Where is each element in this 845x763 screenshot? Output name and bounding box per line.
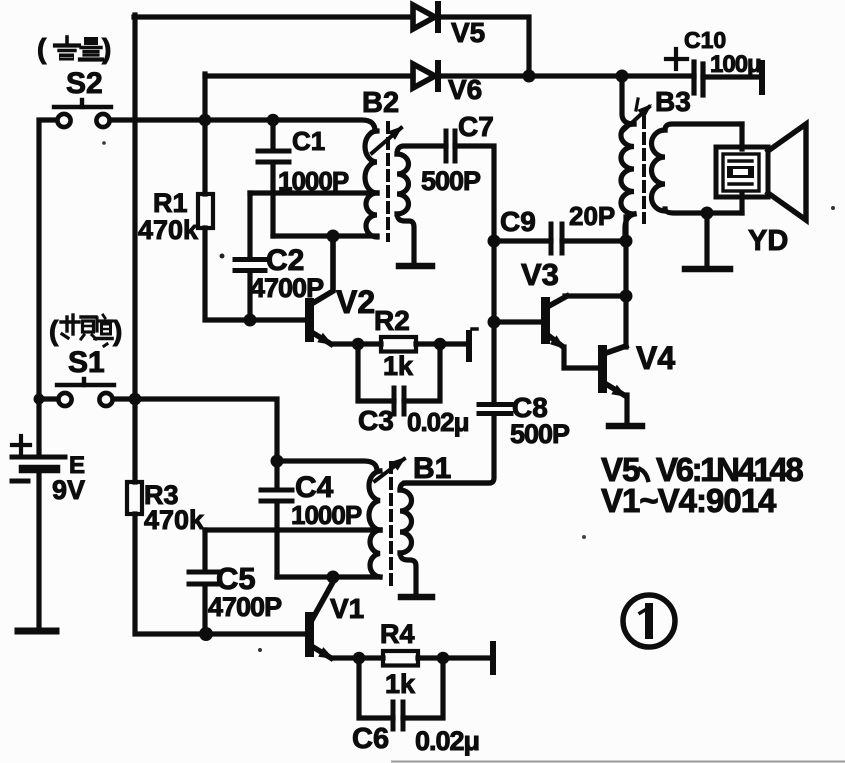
wire V1 emitter line [334, 655, 383, 660]
svg-text:9V: 9V [52, 475, 85, 505]
capacitor C2 [235, 193, 265, 320]
transformer B1 primary winding [369, 471, 380, 577]
node C4 top junction [271, 455, 284, 468]
wire left rail x135 upper [132, 15, 137, 482]
label R2 value 1k [383, 351, 414, 381]
label S2 [66, 67, 103, 100]
scan bottom edge line [392, 761, 845, 763]
switch S1 right contact [99, 393, 112, 406]
label C5 value 4700P [208, 592, 282, 622]
label C2 [266, 244, 304, 277]
wire B1 tap line [205, 527, 380, 532]
label 9V [52, 475, 85, 505]
battery E positive plate [12, 455, 65, 460]
transformer B3 tuning arrow [624, 99, 652, 130]
label C8 [512, 392, 548, 423]
transistor V1 collector [313, 577, 333, 618]
transistor V1 emitter [313, 647, 334, 659]
label B3 [655, 86, 691, 117]
node C3 right junction [434, 338, 447, 351]
wire battery to S1 left [39, 396, 58, 401]
node S1 left junction [34, 394, 45, 405]
svg-text:): ) [113, 315, 122, 346]
capacitor C5 [189, 530, 220, 634]
svg-text:C3: C3 [358, 405, 394, 436]
label V3 [521, 257, 559, 292]
transistor V4 emitter [606, 384, 627, 397]
label C7 [458, 111, 494, 142]
wire C10 to terminal [703, 74, 759, 79]
transformer B3 secondary winding [652, 124, 743, 213]
wire V4/V3 collector column [623, 217, 628, 347]
label R1 [153, 188, 188, 218]
label C1 value 1000P [278, 166, 349, 196]
node C1 top junction [267, 114, 280, 127]
note diodes types [601, 451, 803, 488]
transformer B2 tuning arrow [372, 126, 403, 153]
label C3 [358, 405, 394, 436]
speaker YD driver box [716, 147, 768, 197]
battery E negative plate [23, 465, 56, 474]
svg-text:R2: R2 [374, 305, 410, 336]
resistor R1 [198, 194, 213, 228]
capacitor C9 [494, 224, 626, 253]
wire supply rail y76 left segment [205, 73, 413, 78]
switch S2 bar [54, 100, 111, 107]
node V1 collector junction [327, 571, 340, 584]
label C4 value 1000P [291, 500, 362, 530]
resistor R3 [127, 482, 142, 514]
svg-text:B3: B3 [655, 86, 691, 117]
label C6 value 0.02u [415, 726, 479, 756]
svg-text:B2: B2 [362, 87, 399, 119]
label C10 [684, 27, 726, 53]
svg-text:C6: C6 [352, 723, 389, 755]
node C6 left junction [353, 652, 366, 665]
transistor V3 collector [549, 296, 626, 306]
wire S2 left to battery rail [39, 120, 57, 456]
label C3 value 0.02u [407, 407, 469, 437]
label C2 value 4700P [250, 273, 324, 303]
node R1 top junction [199, 114, 212, 127]
wire supply rail y76 middle segment [437, 73, 694, 78]
wire C7 to C8 column [455, 146, 494, 403]
wire top rail to V5 [134, 14, 413, 19]
speaker YD horn [768, 124, 806, 220]
wire rail corner to R1 [202, 74, 207, 194]
label V5 [451, 17, 485, 48]
label volume kanji liang [80, 37, 102, 60]
capacitor C7 [446, 131, 455, 161]
wire V3 emitter to V4 base [564, 347, 599, 368]
terminal bar right of R2 [469, 329, 477, 359]
resistor R4 [383, 651, 418, 666]
node V3 base junction [488, 316, 501, 329]
transformer B1 secondary winding [400, 483, 489, 593]
node C6 right junction [437, 652, 450, 665]
svg-text:0.02μ: 0.02μ [415, 726, 479, 756]
transformer B2 core [386, 123, 390, 240]
wire speaker loop right side [739, 124, 744, 213]
label C1 [292, 126, 325, 156]
ground below B1 secondary [401, 594, 432, 601]
transistor V3 base bar [541, 297, 550, 344]
label V2 [336, 284, 375, 320]
svg-text:4700P: 4700P [208, 592, 282, 622]
label E [69, 452, 85, 479]
wire V5 to corner [437, 17, 529, 70]
label C9 [500, 206, 536, 237]
diode V6 [413, 63, 438, 89]
wire S1 to B1 feed [113, 399, 277, 461]
svg-text:(: ( [49, 315, 59, 346]
transistor V1 base bar [305, 612, 314, 657]
svg-text:S2: S2 [66, 67, 103, 100]
terminal bar right of C10 [759, 63, 765, 92]
label volume key parens [37, 33, 111, 64]
svg-text:470k: 470k [138, 215, 199, 245]
wire S2 to B2 primary top [110, 120, 375, 131]
label B1 [413, 452, 451, 485]
svg-text:V3: V3 [521, 257, 559, 292]
wire V4 emitter to ground [624, 395, 629, 423]
label R3 value 470k [144, 505, 205, 535]
label channel key parens [49, 315, 122, 346]
wire R2 to terminal [416, 341, 466, 346]
capacitor C3 loop [358, 344, 440, 414]
label channel kanji pin [61, 315, 96, 339]
wire V2 emitter line [332, 341, 381, 346]
node speaker ground junction [701, 207, 714, 220]
svg-text:C10: C10 [684, 27, 726, 53]
battery end bar [18, 628, 56, 635]
transformer B3 core [642, 118, 646, 222]
switch S2 right contact [96, 114, 109, 127]
wire B2 tap line [250, 190, 377, 195]
label R4 value 1k [385, 669, 416, 699]
wire B1 primary top line [277, 461, 377, 471]
diode V5 [413, 4, 438, 30]
transformer B2 secondary winding [397, 146, 446, 262]
label V1 [330, 593, 364, 624]
svg-text:V4: V4 [636, 340, 675, 376]
capacitor C1 [258, 120, 289, 236]
wire B2 primary bottom line [273, 233, 377, 238]
svg-text:YD: YD [748, 225, 788, 257]
label channel kanji dao [95, 315, 112, 339]
capacitor C8 [405, 405, 511, 484]
svg-text:R4: R4 [380, 619, 415, 649]
transformer B2 primary winding [365, 131, 377, 237]
capacitor C10 [666, 49, 703, 95]
terminal bar right of R4 [490, 644, 496, 672]
label C5 [216, 561, 256, 596]
label YD [748, 225, 788, 257]
label B2 [362, 87, 399, 119]
resistor R2 [381, 337, 416, 352]
node S1 right junction [129, 393, 142, 406]
svg-text:1k: 1k [385, 669, 416, 699]
node C5 bottom junction [199, 627, 213, 641]
label C10 value 100u [710, 51, 761, 78]
label C7 value 500P [421, 166, 481, 196]
svg-text:C7: C7 [458, 111, 494, 142]
transformer B3 primary winding [621, 76, 634, 241]
svg-text:B1: B1 [413, 452, 451, 485]
svg-text:100μ: 100μ [710, 51, 761, 78]
svg-text:1k: 1k [383, 351, 414, 381]
transistor V4 base bar [598, 345, 607, 393]
figure number circle 1 [623, 595, 675, 647]
node B3 top junction [616, 70, 629, 83]
transformer B1 core [389, 463, 393, 584]
scan specks [102, 141, 835, 652]
transistor V2 emitter [313, 333, 333, 345]
wire battery negative lead [36, 469, 41, 631]
ground below B2 secondary [399, 263, 432, 270]
ground below V4 [609, 423, 642, 430]
node C2 bottom junction [244, 314, 257, 327]
battery minus sign [12, 479, 28, 484]
label S1 [68, 344, 107, 379]
svg-text:20P: 20P [569, 201, 615, 231]
svg-text:V2: V2 [336, 284, 375, 320]
label R4 [380, 619, 415, 649]
label volume kanji yin [55, 37, 79, 61]
switch S1 bar [57, 379, 114, 385]
wire R4 to terminal [418, 655, 490, 660]
transistor V2 collector [313, 236, 333, 303]
wire left rail x135 lower and bottom run to V1 base [135, 514, 306, 634]
svg-text:R1: R1 [153, 188, 188, 218]
svg-text:0.02μ: 0.02μ [407, 407, 469, 437]
svg-text:S1: S1 [68, 346, 105, 379]
transformer B1 tuning arrow [375, 457, 406, 481]
svg-text:V5: V5 [451, 17, 485, 48]
svg-text:V1: V1 [330, 593, 364, 624]
label V6 [448, 74, 482, 105]
node C3 left junction [352, 338, 365, 351]
svg-text:C5: C5 [216, 561, 256, 596]
svg-text:C1: C1 [292, 126, 325, 156]
svg-text:V1~V4:9014: V1~V4:9014 [601, 482, 777, 519]
label C6 [352, 723, 389, 755]
label R1 value 470k [138, 215, 199, 245]
label R3 [144, 480, 179, 510]
label C4 [295, 471, 334, 504]
node A junction V5/V6 rails [523, 70, 536, 83]
note transistor types [601, 482, 777, 519]
label R2 [374, 305, 410, 336]
label C9 value 20P [569, 201, 615, 231]
svg-text:C9: C9 [500, 206, 536, 237]
transistor V2 base bar [305, 298, 314, 342]
node C9 right junction [620, 235, 633, 248]
svg-text:500P: 500P [510, 419, 570, 449]
capacitor C4 [261, 461, 292, 577]
svg-text:V6: V6 [448, 74, 482, 105]
battery plus sign [12, 436, 30, 454]
node V2 collector junction [327, 230, 340, 243]
switch S1 left contact [58, 393, 71, 406]
switch S2 left contact [57, 114, 70, 127]
svg-text:500P: 500P [421, 166, 481, 196]
transistor V4 collector [606, 346, 626, 353]
svg-text:(: ( [37, 33, 47, 64]
label C8 value 500P [510, 419, 570, 449]
ground below speaker [685, 213, 730, 269]
node C9 left junction [488, 235, 501, 248]
svg-text:470k: 470k [144, 505, 205, 535]
capacitor C6 loop [359, 658, 443, 729]
transistor V3 emitter [549, 335, 565, 349]
wire B1 primary bottom line [277, 574, 380, 579]
wire V3 base line [494, 319, 542, 324]
svg-text:1000P: 1000P [291, 500, 362, 530]
label V4 [636, 340, 675, 376]
wire R1 to V2 base line [205, 228, 306, 320]
node V3 collector junction [620, 290, 633, 303]
